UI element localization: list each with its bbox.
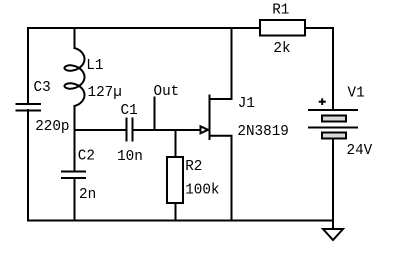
ground — [323, 229, 343, 240]
capacitor C3 — [17, 104, 41, 111]
wire C2 bottom lead — [74, 178, 76, 221]
svg-text:2N3819: 2N3819 — [237, 124, 288, 140]
wire left rail bottom — [27, 110, 29, 221]
svg-text:C3: C3 — [34, 80, 51, 96]
label plus sign — [319, 98, 326, 105]
resistor R2 — [167, 157, 183, 203]
svg-text:10n: 10n — [117, 149, 143, 165]
wire R2 top lead — [175, 130, 177, 157]
svg-text:2n: 2n — [79, 187, 96, 203]
wire inductor top lead — [74, 28, 76, 48]
svg-text:C1: C1 — [121, 103, 138, 119]
svg-text:J1: J1 — [238, 96, 255, 112]
wire C1 right to gate — [133, 129, 202, 131]
svg-text:L1: L1 — [86, 58, 103, 74]
wire inductor bottom lead to C2 — [74, 106, 76, 172]
svg-text:R2: R2 — [185, 159, 202, 175]
transistor J1 — [201, 28, 232, 221]
svg-text:100k: 100k — [185, 182, 219, 198]
battery V1 — [309, 110, 357, 139]
capacitor C2 — [62, 172, 85, 179]
wire top rail — [28, 27, 260, 29]
wire gate net from L1 tap to C1 — [75, 129, 127, 131]
wire battery bottom to ground — [332, 139, 334, 230]
capacitor C1 — [127, 119, 133, 141]
svg-text:R1: R1 — [272, 3, 289, 19]
svg-text:V1: V1 — [348, 86, 365, 102]
svg-text:Out: Out — [154, 84, 180, 100]
resistor R1 — [260, 20, 305, 36]
wire bottom rail — [28, 220, 333, 222]
svg-text:2k: 2k — [273, 41, 290, 57]
svg-text:24V: 24V — [347, 143, 373, 159]
svg-text:127µ: 127µ — [88, 85, 122, 101]
wire top right segment — [305, 28, 333, 110]
svg-text:220p: 220p — [35, 119, 69, 135]
wire R2 bottom lead — [175, 203, 177, 221]
wire left rail top — [27, 28, 29, 104]
node Out stub — [154, 98, 156, 131]
svg-text:C2: C2 — [78, 148, 95, 164]
inductor L1 — [65, 48, 85, 106]
